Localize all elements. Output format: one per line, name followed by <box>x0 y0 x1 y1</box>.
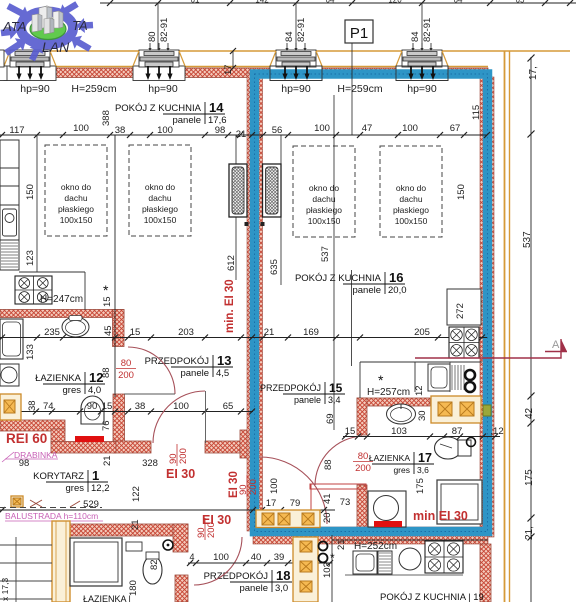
svg-text:15: 15 <box>345 426 356 437</box>
svg-text:100x150: 100x150 <box>60 215 93 225</box>
door arc bathroom12 <box>128 347 175 394</box>
svg-text:84: 84 <box>410 31 421 42</box>
svg-text:388: 388 <box>101 110 112 126</box>
section guide x334 <box>333 95 335 430</box>
washing machine 17 <box>368 491 406 527</box>
main dimension chain y135 <box>0 134 487 136</box>
roof window hp=90 at x=30 <box>4 66 56 81</box>
dim line y510 <box>0 509 335 511</box>
svg-text:100: 100 <box>314 123 330 134</box>
dim 17 wall offset <box>232 51 234 68</box>
svg-text:*: * <box>330 551 335 565</box>
svg-text:73: 73 <box>340 497 351 508</box>
meters <box>319 542 328 551</box>
P1 apartment blue outline <box>255 74 488 532</box>
svg-text:88: 88 <box>323 459 334 470</box>
svg-text:100x150: 100x150 <box>308 216 341 226</box>
wall right below apartment corner <box>480 544 491 602</box>
svg-text:79: 79 <box>290 498 301 509</box>
window arrows at x=422 <box>410 66 412 74</box>
svg-text:okno do: okno do <box>396 183 427 193</box>
wall korytarz bottom <box>68 524 188 536</box>
svg-text:61: 61 <box>191 0 200 5</box>
door arc przedpokoj18 <box>194 537 242 585</box>
orange vertical line pair right <box>504 51 506 602</box>
wall under blue right <box>480 77 494 537</box>
toilet 17 <box>435 437 462 459</box>
svg-text:15: 15 <box>102 401 113 412</box>
svg-text:PRZEDPOKÓJ: PRZEDPOKÓJ <box>260 383 321 393</box>
svg-text:64: 64 <box>326 0 335 5</box>
svg-text:PRZEDPOKÓJ: PRZEDPOKÓJ <box>204 571 269 582</box>
svg-text:65: 65 <box>223 401 234 412</box>
kitchen 19 row <box>332 539 488 541</box>
svg-text:87: 87 <box>452 426 463 437</box>
svg-text:POKÓJ Z KUCHNIA: POKÓJ Z KUCHNIA <box>295 273 382 284</box>
svg-text:100: 100 <box>173 401 189 412</box>
x marks balustrade <box>30 500 42 507</box>
washbasin 12 <box>62 317 89 337</box>
svg-text:38: 38 <box>135 401 146 412</box>
svg-text:KORYTARZ: KORYTARZ <box>33 471 84 482</box>
washer 19 <box>353 551 377 574</box>
svg-text:H=252cm: H=252cm <box>354 541 397 552</box>
svg-text:84: 84 <box>284 31 295 42</box>
svg-text:POKÓJ Z KUCHNIA: POKÓJ Z KUCHNIA <box>115 103 202 114</box>
svg-text:82: 82 <box>149 559 160 570</box>
svg-text:100x150: 100x150 <box>395 216 428 226</box>
door arc przedpokoj13 <box>153 391 205 443</box>
roof window dashed rect at 380,146 <box>380 146 442 237</box>
svg-text:panele: panele <box>172 115 201 126</box>
wall korytarz top mid <box>51 442 116 454</box>
svg-text:20,0: 20,0 <box>388 285 407 296</box>
gas rings <box>465 370 475 380</box>
svg-text:P1: P1 <box>350 25 368 42</box>
svg-text:150: 150 <box>456 184 467 200</box>
svg-text:POKÓJ Z KUCHNIA | 19: POKÓJ Z KUCHNIA | 19 <box>380 592 484 602</box>
wall przedpokoj13 left lower <box>113 394 125 446</box>
svg-text:100x150: 100x150 <box>144 215 177 225</box>
P1 label box <box>345 20 373 43</box>
svg-text:ATA: ATA <box>2 19 26 34</box>
svg-text:12: 12 <box>414 385 425 396</box>
svg-text:H=259cm: H=259cm <box>71 83 116 95</box>
svg-text:169: 169 <box>303 327 319 338</box>
svg-text:100: 100 <box>402 123 418 134</box>
svg-text:175: 175 <box>524 469 535 486</box>
wardrobe at 256,510 <box>256 510 320 528</box>
svg-text:41: 41 <box>322 493 333 504</box>
roof window hp=90 at x=159 <box>133 66 185 81</box>
svg-text:*: * <box>378 372 384 388</box>
svg-text:H=259cm: H=259cm <box>337 83 382 95</box>
svg-text:39: 39 <box>274 552 285 563</box>
svg-text:142: 142 <box>255 0 269 5</box>
svg-text:min. EI 30: min. EI 30 <box>224 279 236 333</box>
wardrobe at 11,496 <box>11 496 23 507</box>
knob 17 <box>467 438 476 447</box>
wall bathroom17 left lower <box>357 485 367 527</box>
kitchen annex 16 <box>360 361 482 363</box>
toilet 18 <box>143 556 162 584</box>
wardrobe at 293,537 <box>293 537 318 602</box>
svg-text:,12: ,12 <box>490 426 503 437</box>
svg-text:56: 56 <box>272 125 283 136</box>
svg-text:3,6: 3,6 <box>417 465 429 475</box>
svg-text:200: 200 <box>206 522 217 538</box>
svg-text:płaskiego: płaskiego <box>393 205 429 215</box>
svg-text:13: 13 <box>217 353 231 368</box>
wall under blue bottom <box>253 527 488 544</box>
roof window hp=90 at x=422 <box>396 66 448 81</box>
washer niche wall thin <box>310 484 366 489</box>
dim chain y337 <box>0 337 487 339</box>
svg-text:537: 537 <box>320 246 331 262</box>
dim line y436 <box>343 436 500 438</box>
dish rack <box>451 365 453 390</box>
svg-text:15: 15 <box>130 327 141 338</box>
svg-text:hp=90: hp=90 <box>407 83 437 95</box>
watermark logo <box>1 1 94 61</box>
teal cabinet cell <box>483 405 491 416</box>
svg-text:dachu: dachu <box>64 193 87 203</box>
svg-text:panele: panele <box>180 368 209 379</box>
svg-text:635: 635 <box>269 259 280 275</box>
svg-text:67: 67 <box>450 123 461 134</box>
wall przedpokoj18 left upper <box>173 524 188 552</box>
svg-text:65: 65 <box>516 0 525 5</box>
partial window far left <box>0 66 7 81</box>
stove at 15,276 <box>15 276 52 304</box>
svg-text:14: 14 <box>209 100 224 115</box>
stove at 425,541 <box>425 541 463 573</box>
svg-text:panele: panele <box>294 395 321 405</box>
door arc bathroom17 <box>315 436 362 485</box>
dim extension x37 <box>36 135 38 272</box>
svg-text:gres: gres <box>393 465 410 475</box>
wardrobe at 0,394 <box>0 394 21 420</box>
shelf <box>126 542 142 551</box>
svg-text:płaskiego: płaskiego <box>306 205 342 215</box>
window arrows at x=296 <box>284 66 286 74</box>
svg-text:76: 76 <box>101 420 112 431</box>
svg-text:TA: TA <box>72 18 88 33</box>
svg-text:80: 80 <box>147 31 158 42</box>
svg-text:REI 60: REI 60 <box>6 431 47 446</box>
svg-text:235: 235 <box>44 327 60 338</box>
svg-text:panele: panele <box>239 583 268 594</box>
shower 18 <box>70 538 122 586</box>
svg-text:ŁAZIENKA: ŁAZIENKA <box>369 453 410 463</box>
svg-text:123: 123 <box>25 250 36 266</box>
extension x281 <box>280 135 282 285</box>
svg-text:16: 16 <box>389 270 403 285</box>
svg-text:47: 47 <box>362 123 373 134</box>
svg-text:BALUSTRADA h=110cm: BALUSTRADA h=110cm <box>5 511 98 521</box>
ventilation shaft at 229,164 <box>229 164 247 217</box>
svg-text:203: 203 <box>178 327 194 338</box>
svg-text:17: 17 <box>266 498 277 509</box>
svg-text:537: 537 <box>522 231 533 248</box>
svg-text:LAN: LAN <box>42 39 70 55</box>
svg-text:PRZEDPOKÓJ: PRZEDPOKÓJ <box>145 356 210 367</box>
window leader lines <box>157 3 159 50</box>
svg-text:H=247cm: H=247cm <box>40 294 83 305</box>
svg-text:100: 100 <box>157 125 173 136</box>
svg-text:103: 103 <box>391 426 407 437</box>
svg-text:hp=90: hp=90 <box>148 83 178 95</box>
svg-text:205: 205 <box>414 327 430 338</box>
window arrows at x=30 <box>18 66 20 74</box>
svg-text:płaskiego: płaskiego <box>142 204 178 214</box>
toilet 12 <box>81 396 104 424</box>
svg-text:dachu: dachu <box>399 194 422 204</box>
wardrobe at 431,396 <box>431 396 481 423</box>
svg-text:120: 120 <box>388 0 402 5</box>
svg-text:150: 150 <box>25 184 36 200</box>
svg-text:21,: 21, <box>524 526 535 540</box>
svg-text:82-91: 82-91 <box>422 18 433 42</box>
washing machine 12 <box>0 364 19 386</box>
svg-text:42: 42 <box>524 407 535 419</box>
knob 18 <box>163 540 173 550</box>
svg-text:100: 100 <box>213 552 229 563</box>
sink 14 <box>3 209 17 236</box>
svg-text:612: 612 <box>226 255 237 271</box>
door arc entry P1 <box>260 457 327 524</box>
svg-text:17,: 17, <box>528 66 539 80</box>
svg-text:A: A <box>552 339 560 351</box>
roof window dashed rect at 293,146 <box>293 146 355 237</box>
exterior wall top (red hatched) <box>0 68 488 78</box>
dishwasher 19 <box>378 551 392 574</box>
svg-text:17: 17 <box>418 451 432 465</box>
svg-text:64: 64 <box>454 0 463 5</box>
svg-text:ŁAZIENKA |: ŁAZIENKA | <box>83 594 131 602</box>
svg-text:17,6: 17,6 <box>208 115 227 126</box>
svg-text:18: 18 <box>276 568 290 583</box>
svg-text:gres: gres <box>63 385 82 396</box>
orange stub <box>437 51 439 59</box>
svg-text:82-91: 82-91 <box>159 18 170 42</box>
svg-text:3,0: 3,0 <box>275 583 288 594</box>
svg-text:płaskiego: płaskiego <box>58 204 94 214</box>
svg-text:okno do: okno do <box>61 182 92 192</box>
svg-text:hp=90: hp=90 <box>281 83 311 95</box>
svg-text:69: 69 <box>325 413 336 424</box>
svg-text:EI 30: EI 30 <box>166 467 195 481</box>
wall przedpokoj13 left upper <box>113 310 125 347</box>
svg-text:200: 200 <box>118 370 134 381</box>
svg-text:x 17,3: x 17,3 <box>0 578 10 601</box>
svg-text:117: 117 <box>9 125 24 136</box>
svg-text:328: 328 <box>142 458 158 469</box>
svg-text:panele: panele <box>352 285 381 296</box>
svg-text:ŁAZIENKA: ŁAZIENKA <box>35 373 82 384</box>
svg-text:4: 4 <box>189 552 194 562</box>
svg-text:115: 115 <box>471 105 482 120</box>
svg-text:529: 529 <box>83 499 99 510</box>
wall korytarz top left foot <box>113 441 151 453</box>
svg-text:80: 80 <box>121 358 132 369</box>
door jamb entry P1 <box>240 430 253 458</box>
dim line y411 korytarz top <box>0 411 253 413</box>
washbasin 17 <box>387 404 416 424</box>
wall REI60 upper band <box>0 420 65 431</box>
svg-text:122: 122 <box>131 486 142 502</box>
orange wall band bottom-left <box>52 521 70 602</box>
wall REI60 step <box>51 429 65 443</box>
wall przedpokoj18 left lower <box>175 575 188 602</box>
svg-text:4,5: 4,5 <box>216 368 229 379</box>
top dimension chain <box>100 2 576 4</box>
svg-text:H=257cm: H=257cm <box>367 387 410 398</box>
svg-text:98: 98 <box>215 125 226 136</box>
wall under blue left (apartment P1 west wall) <box>247 73 263 531</box>
svg-text:100: 100 <box>73 123 89 134</box>
svg-text:17: 17 <box>223 64 234 75</box>
svg-text:okno do: okno do <box>145 182 176 192</box>
roof window dashed rect at 129,145 <box>129 145 191 236</box>
blue bottom bar extension <box>250 527 254 537</box>
svg-text:okno do: okno do <box>309 183 340 193</box>
bathtub 12 <box>0 319 23 359</box>
dishwasher hatch <box>1 242 18 244</box>
extension x236 <box>235 135 237 280</box>
counter lines <box>19 271 85 273</box>
svg-text:dachu: dachu <box>148 193 171 203</box>
svg-text:74: 74 <box>43 401 54 412</box>
svg-text:21: 21 <box>336 539 347 550</box>
svg-text:12,2: 12,2 <box>91 483 110 494</box>
svg-text:1: 1 <box>92 468 99 483</box>
svg-text:*: * <box>103 282 109 298</box>
svg-text:min EI 30: min EI 30 <box>413 509 468 523</box>
svg-text:38: 38 <box>115 125 126 136</box>
svg-text:hp=90: hp=90 <box>20 83 50 95</box>
wall bathroom17 left upper <box>357 398 367 435</box>
orange roof line lower <box>0 66 488 68</box>
svg-text:200: 200 <box>355 463 371 474</box>
ventilation shaft at 262.5,164 <box>263 164 282 217</box>
svg-text:100: 100 <box>269 478 280 494</box>
svg-text:90: 90 <box>87 401 98 412</box>
wall korytarz top right <box>205 441 251 453</box>
svg-text:21: 21 <box>102 455 113 466</box>
svg-text:gres: gres <box>66 483 85 494</box>
svg-text:40: 40 <box>251 552 262 563</box>
svg-text:82-91: 82-91 <box>296 18 307 42</box>
sink 19 <box>399 548 421 570</box>
orange roof line upper <box>0 50 570 52</box>
window arrows at x=159 <box>147 66 149 74</box>
svg-text:175: 175 <box>415 478 426 494</box>
stair treads <box>0 544 52 546</box>
mini arrows under window dims <box>149 43 151 49</box>
roof window dashed rect at 45,145 <box>45 145 107 236</box>
section guide x351 <box>351 270 353 366</box>
red mat ladder (drabinka) <box>75 436 104 442</box>
svg-text:15: 15 <box>102 296 113 307</box>
roof window hp=90 at x=296 <box>270 66 322 81</box>
kitchen counter left column <box>0 140 19 270</box>
dim line y563 <box>188 562 332 564</box>
svg-text:133: 133 <box>25 344 36 360</box>
right vertical dimension line <box>530 57 532 602</box>
svg-text:200: 200 <box>178 448 189 464</box>
svg-text:80: 80 <box>358 451 369 462</box>
svg-text:4,0: 4,0 <box>88 385 101 396</box>
section line A-A <box>415 339 561 358</box>
shaft corner squares <box>245 222 249 226</box>
svg-text:15: 15 <box>329 381 343 395</box>
wall bathroom17 top <box>357 398 430 406</box>
balustrade dashed line <box>0 507 102 509</box>
svg-text:38: 38 <box>27 400 38 411</box>
stove at 449,327 <box>449 327 479 358</box>
svg-text:20: 20 <box>322 512 333 523</box>
svg-text:98: 98 <box>19 458 30 469</box>
wall bathroom12 top <box>0 310 124 318</box>
shower 17 <box>437 480 482 524</box>
window lower box outlines over blue <box>270 66 322 81</box>
svg-text:88: 88 <box>101 367 112 378</box>
room divider line x115 <box>114 135 116 397</box>
svg-text:180: 180 <box>128 580 139 596</box>
svg-text:200: 200 <box>248 479 259 495</box>
svg-text:21: 21 <box>130 519 141 530</box>
svg-text:30: 30 <box>417 410 428 421</box>
svg-text:dachu: dachu <box>312 194 335 204</box>
svg-text:45: 45 <box>103 325 114 336</box>
svg-text:21: 21 <box>264 327 275 338</box>
svg-text:21: 21 <box>236 129 247 140</box>
svg-text:272: 272 <box>455 303 466 319</box>
fridge box 272 <box>447 289 481 325</box>
